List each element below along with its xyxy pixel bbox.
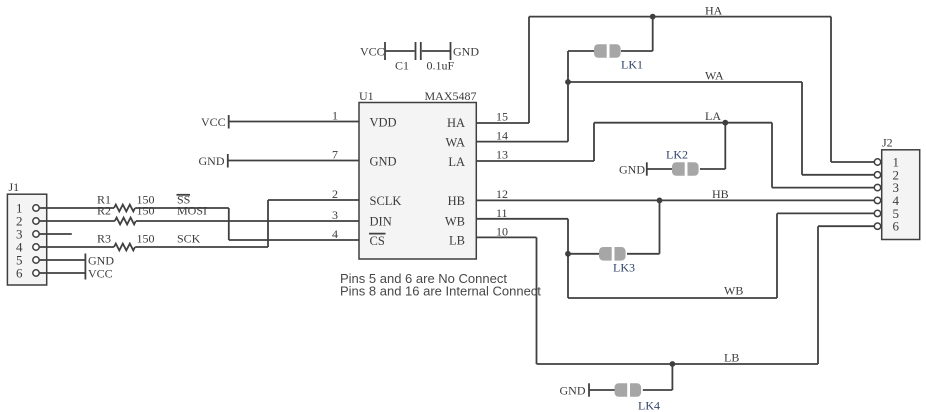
wire WB vertical down bbox=[567, 219, 569, 298]
jumper LK4 right pad bbox=[630, 383, 641, 397]
junction node WA-LK1 bbox=[565, 79, 571, 85]
wire J1 pin5 to GND bbox=[39, 259, 85, 261]
ground bar GND at U1 GND bbox=[227, 154, 229, 168]
jumper LK3 right pad bbox=[615, 247, 626, 261]
J2 pin 2 circle bbox=[874, 172, 880, 178]
wire VCC to U1 VDD pin 1 bbox=[229, 121, 359, 123]
junction node HB-LK3 bbox=[657, 198, 663, 204]
wire LA vertical up bbox=[593, 123, 595, 161]
svg-text:6: 6 bbox=[16, 266, 23, 281]
jumper LK3 vertical to HB bbox=[659, 200, 661, 253]
svg-text:LK4: LK4 bbox=[638, 399, 660, 412]
svg-text:U1: U1 bbox=[359, 89, 374, 103]
svg-text:SCK: SCK bbox=[177, 232, 201, 246]
U1 CS overline bbox=[369, 233, 386, 235]
J2 pin 6 circle bbox=[874, 223, 880, 229]
svg-text:MAX5487: MAX5487 bbox=[425, 89, 477, 103]
wire J1 pin1 to R1 bbox=[39, 207, 114, 209]
wire U1 HA pin 15 lead bbox=[476, 122, 529, 124]
wire LB vertical up to J2 pin6 bbox=[817, 226, 819, 364]
wire SS jog to U1 CS pin bbox=[229, 239, 359, 241]
jumper LK4 left pad bbox=[615, 383, 628, 397]
wire SS net R1 to jog bbox=[135, 207, 229, 209]
jumper LK4 vertical to LB bbox=[671, 364, 673, 390]
svg-text:CS: CS bbox=[370, 234, 385, 248]
svg-text:150: 150 bbox=[137, 232, 155, 246]
svg-text:WB: WB bbox=[724, 284, 743, 298]
svg-text:VDD: VDD bbox=[370, 116, 397, 130]
svg-text:150: 150 bbox=[137, 204, 155, 218]
connector J2 body bbox=[882, 150, 920, 240]
junction node WB-LK3 bbox=[565, 251, 571, 257]
jumper LK2 right pad bbox=[688, 162, 699, 176]
svg-text:WA: WA bbox=[705, 69, 724, 83]
svg-text:LK3: LK3 bbox=[613, 261, 635, 275]
svg-text:15: 15 bbox=[496, 110, 508, 124]
jumper LK1 right pad bbox=[610, 44, 621, 58]
wire HA vertical up bbox=[528, 17, 530, 123]
svg-text:6: 6 bbox=[893, 219, 900, 234]
jumper LK1 left pad bbox=[594, 44, 607, 58]
wire LB into J2 pin 6 bbox=[818, 225, 874, 227]
ground bar at LK2 bbox=[646, 162, 648, 175]
jumper LK3 left wire bbox=[568, 253, 600, 255]
jumper LK2 right wire bbox=[700, 168, 725, 170]
wire WA vertical up bbox=[567, 82, 569, 142]
wire U1 WA pin 14 lead bbox=[476, 141, 568, 143]
svg-text:12: 12 bbox=[496, 187, 508, 201]
wire J1 pin4 to R3 bbox=[39, 246, 114, 248]
svg-text:HA: HA bbox=[705, 4, 723, 18]
power bar VCC at U1 VDD bbox=[228, 115, 230, 129]
svg-text:Pins 8 and 16 are Internal Con: Pins 8 and 16 are Internal Connect bbox=[340, 283, 541, 298]
svg-text:VCC: VCC bbox=[88, 267, 113, 281]
wire WA vertical down to J2 pin2 bbox=[801, 82, 803, 175]
svg-text:0.1uF: 0.1uF bbox=[427, 59, 455, 73]
power bar at J1 pin6 bbox=[84, 267, 86, 280]
wire U1 LB pin 10 lead bbox=[476, 236, 536, 238]
wire HA right vertical down to J2 pin1 bbox=[830, 17, 832, 162]
svg-text:WA: WA bbox=[446, 136, 465, 150]
ground bar at LK4 bbox=[588, 383, 590, 396]
junction node LB-LK4 bbox=[670, 361, 676, 367]
wire U1 LA pin 13 lead bbox=[476, 160, 594, 162]
J2 pin 4 circle bbox=[874, 197, 880, 203]
wire HA top horizontal bbox=[529, 16, 831, 18]
wire LA vertical down to J2 pin3 bbox=[771, 123, 773, 188]
wire J1 pin2 to R2 bbox=[39, 220, 115, 222]
J1 pin 3 circle bbox=[33, 231, 39, 237]
power bar VCC at C1 bbox=[384, 42, 386, 60]
jumper LK3 left pad bbox=[599, 247, 612, 261]
jumper LK1 right wire bbox=[621, 50, 653, 52]
svg-text:GND: GND bbox=[453, 45, 479, 59]
svg-text:J2: J2 bbox=[882, 136, 893, 150]
svg-text:13: 13 bbox=[496, 148, 508, 162]
jumper LK2 vertical to LA bbox=[724, 123, 726, 169]
connector J1 body bbox=[7, 194, 46, 285]
J2 pin 3 circle bbox=[874, 184, 880, 190]
J2 pin 1 circle bbox=[874, 159, 880, 165]
jumper LK1 left vertical to WA bbox=[567, 51, 569, 82]
ground bar at J1 pin5 bbox=[84, 254, 86, 267]
jumper LK3 right wire bbox=[627, 253, 660, 255]
junction node HA-LK1 bbox=[650, 14, 656, 20]
svg-text:GND: GND bbox=[370, 155, 397, 169]
svg-text:4: 4 bbox=[332, 227, 338, 241]
svg-text:MOSI: MOSI bbox=[177, 204, 207, 218]
wire LA horizontal bbox=[594, 122, 772, 124]
svg-text:2: 2 bbox=[332, 187, 338, 201]
wire WA into J2 pin 2 bbox=[802, 174, 874, 176]
wire HA into J2 pin 1 bbox=[831, 161, 874, 163]
svg-text:LK2: LK2 bbox=[666, 148, 688, 162]
svg-text:VCC: VCC bbox=[360, 45, 385, 59]
wire MOSI net R2 to U1 DIN bbox=[136, 220, 359, 222]
wire SCK net R3 to vertical bbox=[135, 246, 268, 248]
jumper LK2 left wire bbox=[647, 168, 673, 170]
svg-text:C1: C1 bbox=[395, 59, 409, 73]
junction node LA-LK2 bbox=[722, 120, 728, 126]
svg-text:WB: WB bbox=[445, 215, 465, 229]
J1 pin 1 circle bbox=[33, 205, 39, 211]
wire SS vertical jog down bbox=[228, 208, 230, 240]
wire LB bottom horizontal bbox=[537, 363, 819, 365]
jumper LK4 left wire bbox=[589, 389, 616, 391]
svg-text:R2: R2 bbox=[97, 204, 111, 218]
svg-text:3: 3 bbox=[332, 208, 338, 222]
svg-text:HA: HA bbox=[447, 116, 465, 130]
wire WB vertical up to J2 pin5 bbox=[776, 213, 778, 298]
svg-text:GND: GND bbox=[88, 254, 114, 268]
resistor R2 zigzag bbox=[115, 218, 136, 225]
svg-text:R3: R3 bbox=[97, 232, 111, 246]
op-amp U1 body MAX5487 bbox=[359, 103, 476, 260]
svg-text:7: 7 bbox=[332, 148, 338, 162]
svg-text:LB: LB bbox=[724, 351, 739, 365]
svg-text:HB: HB bbox=[448, 194, 465, 208]
svg-text:GND: GND bbox=[619, 163, 645, 177]
svg-text:LA: LA bbox=[448, 155, 465, 169]
svg-text:1: 1 bbox=[332, 109, 338, 123]
J1 pin 6 circle bbox=[33, 270, 39, 276]
capacitor C1 left plate bbox=[415, 42, 417, 60]
J2 pin 5 circle bbox=[874, 210, 880, 216]
jumper LK1 left wire bbox=[568, 50, 594, 52]
jumper LK1 right vertical to HA bbox=[652, 17, 654, 51]
wire VCC bar to C1 left plate bbox=[385, 50, 415, 52]
resistor R1 zigzag bbox=[114, 205, 135, 212]
wire GND to U1 GND pin 7 bbox=[228, 160, 359, 162]
wire U1 HB pin 12 straight to J2 pin 4 bbox=[476, 199, 874, 201]
jumper LK4 right wire bbox=[643, 389, 673, 391]
wire C1 right plate to GND bar bbox=[422, 50, 451, 52]
svg-text:SCLK: SCLK bbox=[370, 194, 402, 208]
svg-text:GND: GND bbox=[199, 154, 225, 168]
resistor R3 zigzag bbox=[114, 244, 135, 251]
jumper LK2 left pad bbox=[672, 162, 685, 176]
J1 pin 2 circle bbox=[33, 218, 39, 224]
wire WA horizontal bbox=[568, 81, 802, 83]
wire LB vertical down bbox=[536, 237, 538, 364]
ground bar GND at C1 bbox=[450, 42, 452, 60]
capacitor C1 right plate bbox=[420, 42, 422, 60]
J1 pin 5 circle bbox=[33, 257, 39, 263]
wire SCK to U1 SCLK pin bbox=[268, 199, 359, 201]
svg-text:LB: LB bbox=[449, 234, 465, 248]
SS overline bbox=[177, 194, 191, 196]
svg-text:HB: HB bbox=[712, 187, 729, 201]
svg-text:GND: GND bbox=[560, 384, 586, 398]
svg-text:11: 11 bbox=[496, 206, 508, 220]
svg-text:DIN: DIN bbox=[370, 215, 392, 229]
wire WB bottom horizontal bbox=[568, 297, 777, 299]
J1 pin 4 circle bbox=[33, 244, 39, 250]
wire SCK vertical up bbox=[267, 200, 269, 247]
wire J1 pin3 stub no connect bbox=[39, 233, 72, 235]
wire WB into J2 pin 5 bbox=[777, 212, 874, 214]
wire LA into J2 pin 3 bbox=[772, 187, 874, 189]
svg-text:J1: J1 bbox=[9, 180, 20, 194]
svg-text:VCC: VCC bbox=[201, 115, 226, 129]
wire J1 pin6 to VCC bbox=[39, 272, 85, 274]
svg-text:LA: LA bbox=[705, 109, 721, 123]
svg-text:LK1: LK1 bbox=[621, 58, 643, 72]
svg-text:14: 14 bbox=[496, 129, 508, 143]
svg-text:10: 10 bbox=[496, 225, 508, 239]
wire U1 WB pin 11 lead bbox=[476, 218, 568, 220]
